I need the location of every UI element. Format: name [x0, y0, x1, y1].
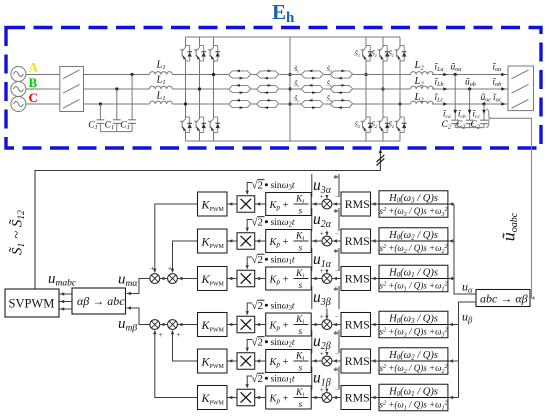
svg-text:−: − — [335, 351, 339, 358]
svg-text:RMS: RMS — [345, 234, 370, 248]
svg-text:C: C — [29, 90, 38, 105]
svg-text:sinω2t: sinω2t — [271, 337, 295, 349]
svg-text:*: * — [333, 208, 338, 219]
svg-text:−: − — [335, 231, 339, 238]
svg-text:s: s — [299, 206, 303, 216]
svg-text:+: + — [320, 350, 324, 358]
svg-text:sinω1t: sinω1t — [271, 374, 295, 386]
svg-text:B: B — [29, 75, 38, 90]
svg-text:PWM: PWM — [210, 328, 225, 334]
svg-text:s2 +(ω1 / Q)s +ω12: s2 +(ω1 / Q)s +ω12 — [380, 400, 448, 412]
svg-text:−: − — [335, 314, 339, 321]
svg-text:√2: √2 — [252, 300, 264, 312]
svg-text:abc → αβ: abc → αβ — [480, 292, 528, 306]
svg-text:PWM: PWM — [210, 207, 225, 213]
svg-text:+: + — [320, 193, 324, 201]
svg-text:√2: √2 — [252, 373, 264, 385]
svg-text:+: + — [320, 267, 324, 275]
svg-text:s: s — [299, 400, 303, 410]
svg-text:+: + — [320, 313, 324, 321]
svg-text:*: * — [333, 248, 338, 259]
svg-text:PWM: PWM — [210, 282, 225, 288]
svg-text:√2: √2 — [252, 337, 264, 349]
svg-text:RMS: RMS — [345, 197, 370, 211]
svg-text:PWM: PWM — [210, 244, 225, 250]
svg-text:s2 +(ω2 / Q)s +ω22: s2 +(ω2 / Q)s +ω22 — [380, 363, 448, 375]
svg-text:sinω3t: sinω3t — [271, 301, 295, 313]
svg-text:−: − — [335, 387, 339, 394]
svg-text:√2: √2 — [252, 180, 264, 192]
svg-text:PWM: PWM — [210, 401, 225, 407]
svg-text:s: s — [299, 281, 303, 291]
svg-text:RMS: RMS — [345, 272, 370, 286]
svg-text:s2 +(ω2 / Q)s +ω22: s2 +(ω2 / Q)s +ω22 — [380, 243, 448, 255]
svg-text:√2: √2 — [252, 217, 264, 229]
svg-text:RMS: RMS — [345, 354, 370, 368]
svg-text:*: * — [333, 367, 338, 378]
svg-text:+: + — [176, 330, 180, 339]
svg-text:PWM: PWM — [210, 364, 225, 370]
svg-text:−: − — [335, 268, 339, 275]
svg-text:+: + — [320, 386, 324, 394]
svg-text:*: * — [333, 330, 338, 341]
svg-text:RMS: RMS — [345, 318, 370, 332]
svg-text:s2 +(ω3 / Q)s +ω32: s2 +(ω3 / Q)s +ω32 — [380, 327, 448, 339]
svg-text:s2 +(ω1 / Q)s +ω12: s2 +(ω1 / Q)s +ω12 — [380, 281, 448, 293]
svg-text:+: + — [159, 330, 163, 339]
svg-text:s: s — [299, 243, 303, 253]
svg-text:*: * — [333, 174, 338, 185]
svg-text:+: + — [168, 264, 172, 273]
svg-text:+: + — [320, 230, 324, 238]
svg-text:αβ → abc: αβ → abc — [77, 294, 125, 308]
svg-text:−: − — [335, 194, 339, 201]
svg-text:sinω1t: sinω1t — [271, 255, 295, 267]
svg-text:√2: √2 — [252, 254, 264, 266]
svg-text:SVPWM: SVPWM — [9, 297, 55, 311]
svg-text:sinω2t: sinω2t — [271, 217, 295, 229]
svg-text:s2 +(ω3 / Q)s +ω32: s2 +(ω3 / Q)s +ω32 — [380, 206, 448, 218]
svg-text:s: s — [299, 327, 303, 337]
svg-text:sinω3t: sinω3t — [271, 180, 295, 192]
svg-text:+: + — [150, 264, 154, 273]
svg-text:RMS: RMS — [345, 391, 370, 405]
svg-text:A: A — [29, 60, 39, 75]
svg-text:*: * — [333, 286, 338, 297]
svg-text:s: s — [299, 363, 303, 373]
